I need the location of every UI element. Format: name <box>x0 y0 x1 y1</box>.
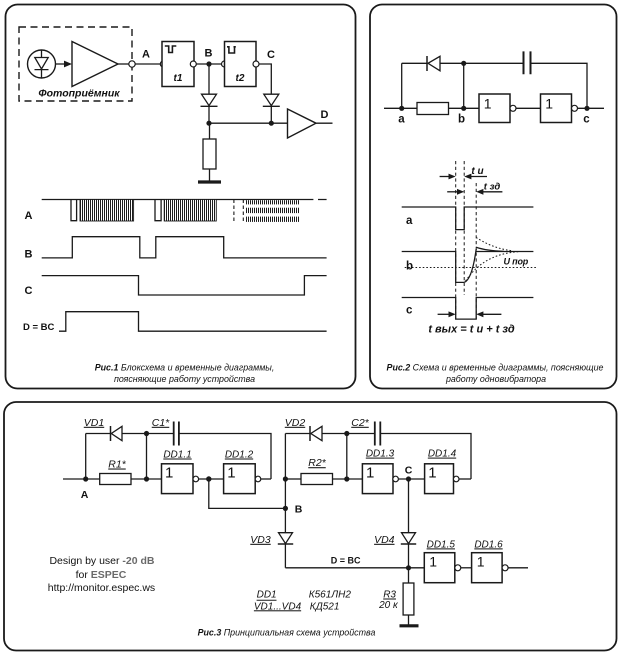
row A hatch burst 1 <box>80 200 134 222</box>
diode under B (anode top) <box>201 94 218 106</box>
capacitor plates <box>524 51 531 74</box>
main wire a-b-c <box>384 107 604 109</box>
diode VD4 triangle <box>402 533 416 544</box>
wire t1 to t2 <box>196 63 221 65</box>
dashed vertical pulse-start <box>455 161 457 319</box>
waveform b overshoot decay solid <box>476 247 504 251</box>
t2 output open circle <box>253 61 259 67</box>
row A narrow pulse 1 <box>71 200 77 221</box>
resistor a-b <box>417 103 449 115</box>
svg-text:for ESPEC: for ESPEC <box>76 569 127 581</box>
DD1.4 output bubble <box>453 476 459 482</box>
wire rail to resistor <box>209 123 211 139</box>
svg-text:1: 1 <box>366 464 374 481</box>
svg-text:D: D <box>321 109 329 121</box>
svg-text:DD1.5: DD1.5 <box>427 539 456 550</box>
wire capacitor to c <box>531 63 588 108</box>
svg-text:1: 1 <box>165 464 173 481</box>
svg-text:http://monitor.espec.ws: http://monitor.espec.ws <box>48 582 155 594</box>
vertical wire x346 to top <box>346 434 348 480</box>
left rail of second stage <box>284 434 286 533</box>
wire DD1.2 to feedback corner <box>261 478 271 480</box>
wire amp to node <box>118 63 129 65</box>
vertical wire b to top <box>463 63 465 108</box>
svg-text:DD1.6: DD1.6 <box>474 539 503 550</box>
vertical wire A to top rail <box>85 434 87 480</box>
t u dimension left arrow <box>440 176 453 178</box>
output wire D <box>316 122 333 124</box>
diode VD3 cathode bar <box>278 543 293 545</box>
top junction dot over b <box>461 61 466 66</box>
svg-text:1: 1 <box>428 464 436 481</box>
open node on dashed box edge <box>129 61 135 67</box>
wire C1 to feedback corner <box>179 434 271 480</box>
row A dashed burst band 3 <box>246 217 300 222</box>
timing row B waveform <box>42 237 327 258</box>
wire rail to R2 <box>285 478 301 480</box>
wire DD1.1 to DD1.2 <box>199 478 224 480</box>
svg-text:B: B <box>295 504 303 516</box>
row A narrow pulse 2 <box>155 200 161 221</box>
svg-text:a: a <box>398 114 405 126</box>
DD1.4 box <box>425 464 454 494</box>
arrow from photodiode to amplifier <box>56 63 66 65</box>
svg-text:c: c <box>406 305 413 317</box>
junction dot left <box>206 121 211 126</box>
wire VD1 to junction <box>122 433 174 435</box>
ground bar <box>400 624 419 627</box>
wire node to t1 input <box>135 63 160 65</box>
svg-text:DD1.2: DD1.2 <box>225 450 254 461</box>
D rail junction dot <box>406 565 411 570</box>
wire node B down to diode <box>208 64 210 94</box>
svg-text:t вых = t u + t зд: t вых = t u + t зд <box>428 324 515 336</box>
DD1.5 output bubble <box>455 565 461 571</box>
top wire rail to VD2 <box>285 433 310 435</box>
diode triangle pointing left <box>428 56 440 71</box>
wire t2 output down to diode <box>259 64 271 94</box>
t1 pulse icon <box>165 46 177 53</box>
ground bar <box>198 180 221 183</box>
svg-text:1: 1 <box>429 553 437 569</box>
row A dashed burst band 2 <box>246 208 300 213</box>
photodiode circle <box>28 50 56 78</box>
wire VD4 to D rail <box>408 544 410 568</box>
frame of Fig.2 <box>370 5 617 389</box>
t1 input open circle <box>160 61 166 67</box>
junction dot right <box>269 121 274 126</box>
vertical wire node C down to VD4 <box>408 479 410 533</box>
wire diode to b-junction <box>440 62 524 64</box>
DD1.1 box <box>162 464 194 494</box>
junction dot at x346 main <box>344 476 349 481</box>
svg-text:b: b <box>406 261 413 273</box>
resistor R2 <box>301 474 333 485</box>
svg-text:R2*: R2* <box>308 457 326 469</box>
svg-text:VD3: VD3 <box>250 534 271 546</box>
top wire A to VD1 <box>86 433 111 435</box>
dashed vertical pulse-end <box>463 161 465 295</box>
top wire to diode <box>402 62 427 64</box>
row A dashed burst vertical dashes <box>234 200 243 223</box>
timing row D waveform <box>59 312 327 332</box>
svg-text:A: A <box>142 49 150 61</box>
waveform b dotted exponential high <box>476 238 512 251</box>
svg-text:Рис.2 Схема и временные диагра: Рис.2 Схема и временные диаграммы, поясн… <box>387 363 604 373</box>
vertical wire junction to top <box>146 434 148 480</box>
svg-text:Рис.3 Принципиальная схема уст: Рис.3 Принципиальная схема устройства <box>198 628 376 638</box>
dashed vertical delay-end <box>475 183 477 319</box>
diode VD2 cathode bar <box>309 426 311 441</box>
wire VD3 to D rail <box>284 544 286 568</box>
wire diodes to summing rail <box>209 106 271 123</box>
svg-text:U пор: U пор <box>504 256 529 266</box>
photodiode symbol <box>35 50 49 78</box>
svg-text:работу одновибратора: работу одновибратора <box>445 374 546 384</box>
svg-text:Рис.1 Блоксхема и временные д: Рис.1 Блоксхема и временные диаграммы, <box>95 363 275 373</box>
waveform b baseline right <box>476 251 533 253</box>
svg-text:1: 1 <box>484 95 492 111</box>
diode VD2 triangle <box>311 426 322 440</box>
DD1.2 output bubble <box>255 476 261 482</box>
svg-text:К561ЛН2: К561ЛН2 <box>309 590 352 601</box>
DD1.3 box <box>362 464 393 494</box>
timing row C waveform <box>42 276 327 295</box>
svg-text:t1: t1 <box>174 73 183 84</box>
waveform a trace <box>402 207 534 230</box>
output wire <box>508 567 528 569</box>
t2 input open circle <box>222 61 228 67</box>
t зд dimension left arrow <box>447 191 461 193</box>
junction dot to B branch <box>206 476 211 481</box>
t зд dimension right arrow <box>479 191 503 193</box>
svg-text:1: 1 <box>477 553 485 569</box>
DD1.6 output bubble <box>502 565 508 571</box>
diode VD4 cathode bar <box>401 543 416 545</box>
top junction dot at x346 <box>344 431 349 436</box>
waveform b rising solid curve <box>464 249 476 282</box>
svg-text:VD2: VD2 <box>285 417 306 429</box>
wire D rail to R3 <box>408 568 410 583</box>
amplifier A2 triangle <box>288 109 317 138</box>
DD1.6 box <box>472 553 503 583</box>
timing row A baseline <box>42 199 327 201</box>
svg-text:B: B <box>25 249 33 261</box>
svg-text:поясняющие работу устройства: поясняющие работу устройства <box>114 374 255 384</box>
svg-text:КД521: КД521 <box>310 601 340 612</box>
t2 pulse icon <box>227 46 236 53</box>
svg-text:C: C <box>25 285 33 297</box>
svg-text:C: C <box>405 465 413 477</box>
svg-text:DD1.1: DD1.1 <box>163 450 191 461</box>
input wire to node A <box>63 478 100 480</box>
wire DD1.3 to DD1.4 <box>398 478 424 480</box>
svg-text:R1*: R1* <box>108 459 126 471</box>
waveform b baseline left <box>402 252 465 283</box>
svg-text:c: c <box>583 114 590 126</box>
node B dot <box>283 506 288 511</box>
resistor to ground <box>203 139 216 169</box>
rail junction dot main row <box>283 476 288 481</box>
threshold dotted line <box>405 267 536 269</box>
inverter 1 box <box>479 94 510 123</box>
capacitor C2 plates <box>375 422 381 446</box>
node B junction dot <box>206 61 211 66</box>
svg-text:b: b <box>458 114 465 126</box>
svg-text:Design by user -20 dB: Design by user -20 dB <box>49 555 154 567</box>
one-shot t1 box <box>162 42 194 87</box>
DD1.5 box <box>424 553 455 583</box>
resistor R1 <box>100 474 131 485</box>
diode cathode bar <box>426 56 428 71</box>
top junction dot at x146 <box>144 431 149 436</box>
wire R3 to ground <box>408 615 410 625</box>
node b dot <box>461 106 466 111</box>
svg-text:1: 1 <box>227 464 235 481</box>
svg-text:C: C <box>267 49 275 61</box>
inverter 2 box <box>541 94 572 123</box>
svg-text:Фотоприёмник: Фотоприёмник <box>38 88 120 100</box>
DD1.2 box <box>224 464 256 494</box>
svg-text:20 к: 20 к <box>378 600 399 611</box>
svg-text:VD4: VD4 <box>374 534 395 546</box>
DD1.1 output bubble <box>193 476 199 482</box>
dashed box Фотоприёмник <box>19 27 132 101</box>
svg-text:t u: t u <box>471 166 483 177</box>
wire VD2 to junction <box>322 433 375 435</box>
inverter 1 bubble <box>510 105 516 111</box>
svg-text:A: A <box>25 210 33 222</box>
svg-text:DD1.3: DD1.3 <box>366 449 395 460</box>
svg-text:A: A <box>81 489 89 501</box>
waveform b dotted exponential low <box>466 252 522 282</box>
resistor R3 <box>403 583 414 615</box>
frame of Fig.3 <box>4 402 617 651</box>
svg-text:VD1: VD1 <box>84 417 104 429</box>
svg-text:B: B <box>205 48 213 60</box>
one-shot t2 box <box>225 42 257 87</box>
svg-text:a: a <box>406 215 413 227</box>
vertical wire at a to top <box>401 63 403 108</box>
amplifier A1 triangle <box>72 42 118 87</box>
t1 output open circle <box>190 61 196 67</box>
svg-text:D = BC: D = BC <box>23 322 55 333</box>
node c dot <box>584 106 589 111</box>
diode VD1 triangle <box>111 426 122 440</box>
svg-text:t2: t2 <box>236 73 245 84</box>
capacitor C1 plates <box>174 422 179 446</box>
D rail wire <box>285 567 424 569</box>
svg-text:VD1...VD4: VD1...VD4 <box>254 601 302 612</box>
junction dot at x146 main <box>144 476 149 481</box>
wire R1 to DD1.1 <box>131 478 162 480</box>
svg-text:D = BC: D = BC <box>331 555 361 565</box>
wire from DD1.1 junction down to B <box>209 479 286 508</box>
DD1.3 output bubble <box>393 476 399 482</box>
svg-text:t зд: t зд <box>484 182 501 193</box>
svg-text:C1*: C1* <box>152 417 170 429</box>
node A dot <box>83 476 88 481</box>
t вых right arrow <box>479 313 502 315</box>
wire DD1.4 to feedback corner <box>459 478 471 480</box>
waveform c trace <box>402 298 534 320</box>
node C dot <box>406 476 411 481</box>
row A dashed burst band 1 <box>246 200 300 204</box>
inverter 2 bubble <box>572 105 578 111</box>
row A hatch burst 2 <box>164 200 216 222</box>
svg-text:DD1: DD1 <box>257 590 277 601</box>
node a dot <box>399 106 404 111</box>
diode VD1 cathode bar <box>110 426 112 441</box>
svg-text:DD1.4: DD1.4 <box>428 449 457 460</box>
summing rail wire <box>209 122 288 124</box>
svg-text:1: 1 <box>545 95 553 111</box>
wire R2 to DD1.3 <box>333 478 363 480</box>
wire C2 to feedback corner <box>380 434 471 480</box>
diode under C (anode top) <box>263 94 280 106</box>
svg-text:C2*: C2* <box>351 417 369 429</box>
wire DD1.5 to DD1.6 <box>461 567 472 569</box>
diode VD3 triangle <box>279 533 293 544</box>
t вых left arrow <box>438 313 453 315</box>
t u dimension right arrow <box>467 176 488 178</box>
wire resistor to ground <box>209 169 211 181</box>
frame of Fig.1 <box>6 5 356 389</box>
